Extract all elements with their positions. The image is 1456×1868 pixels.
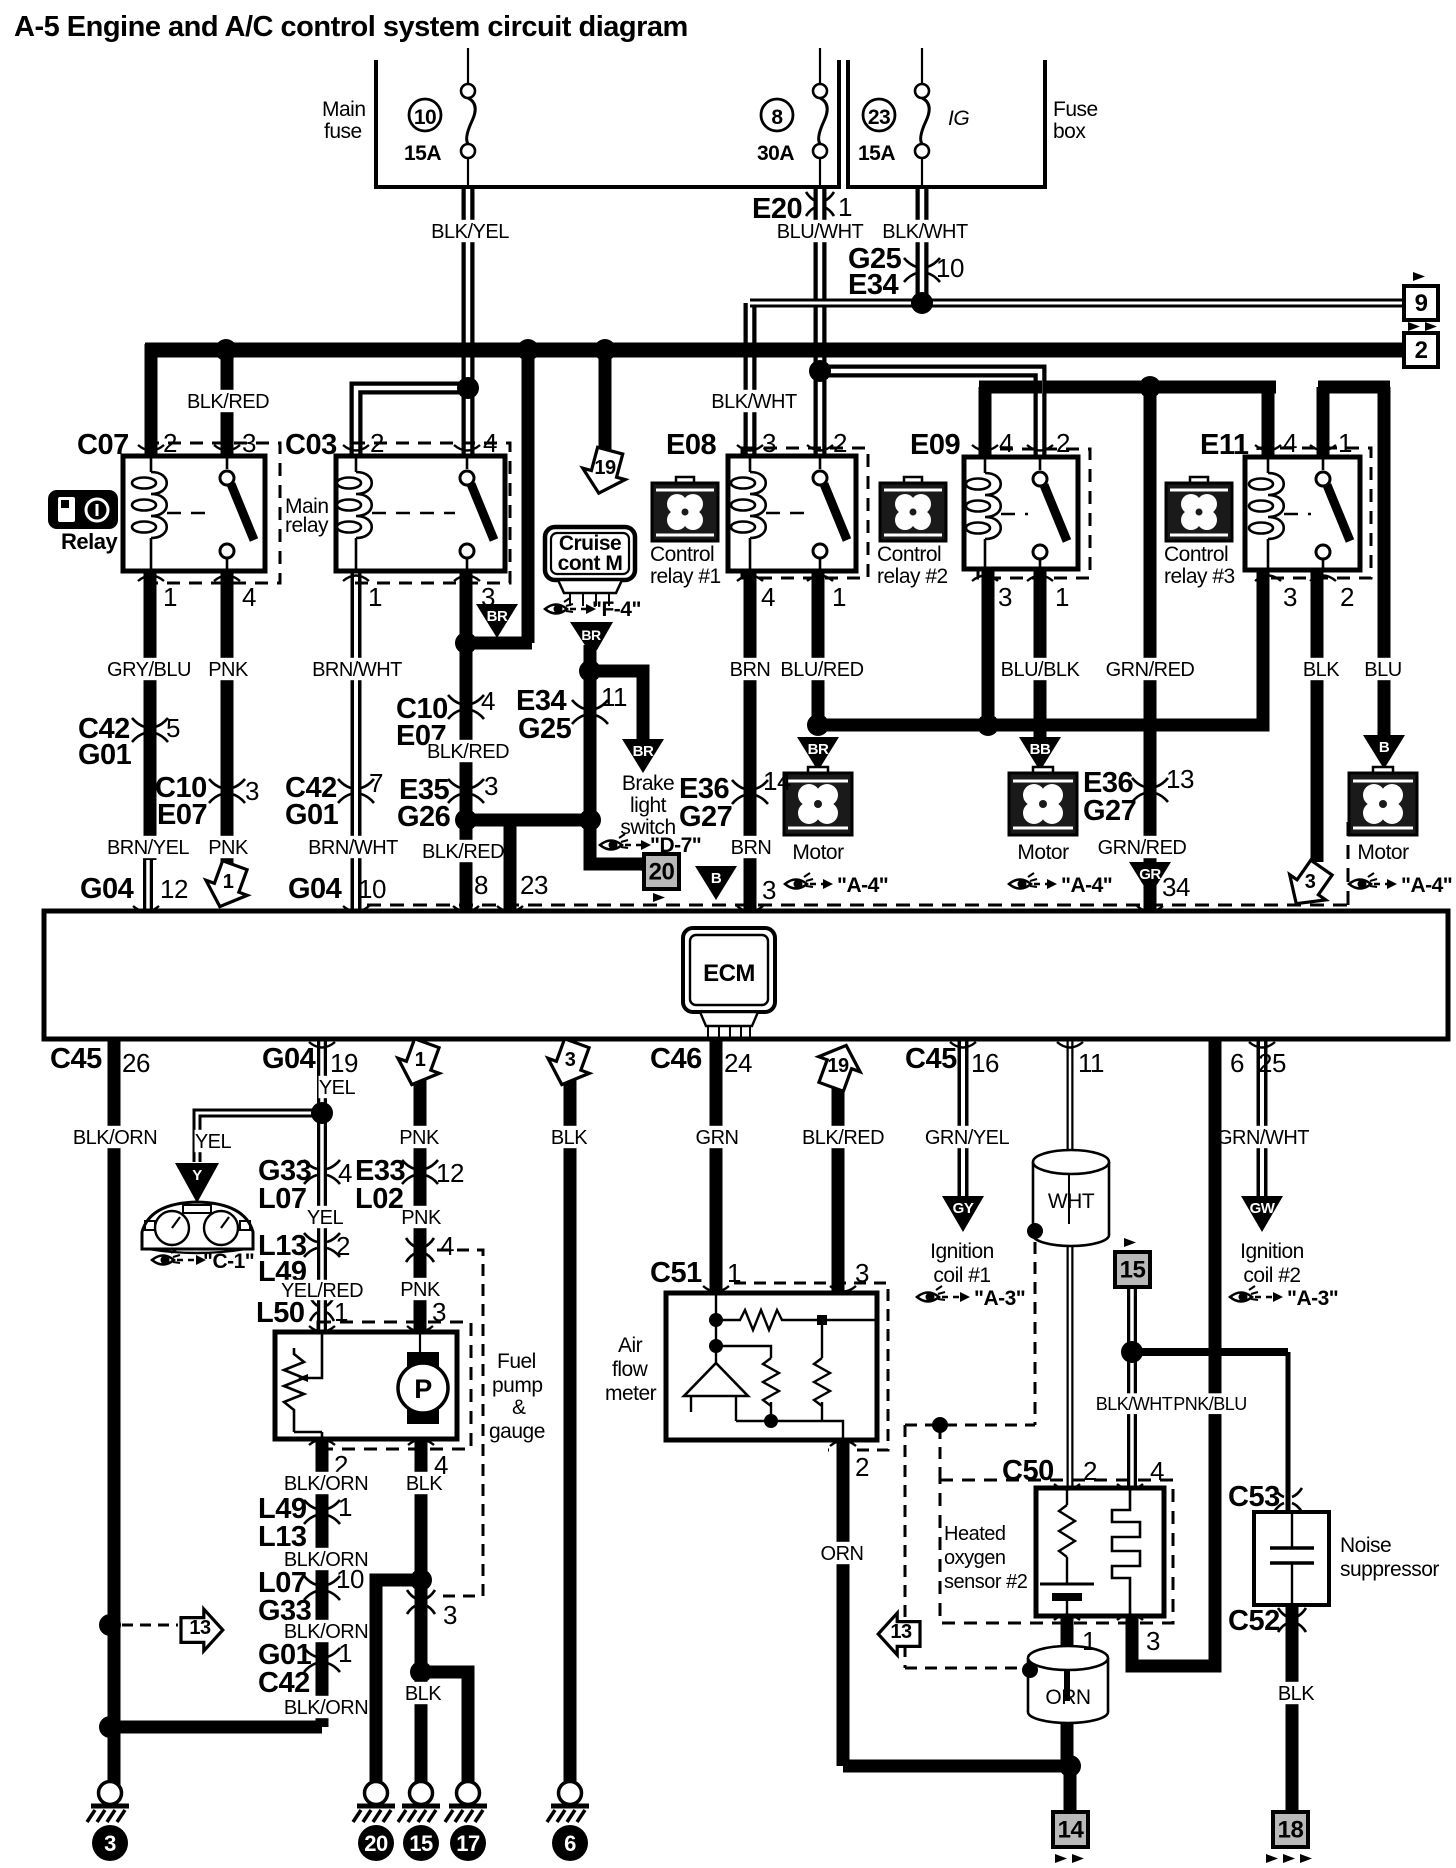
svg-text:BLU/RED: BLU/RED	[780, 659, 863, 681]
svg-text:C45: C45	[50, 1043, 102, 1075]
svg-text:18: 18	[1278, 1817, 1304, 1844]
svg-text:1: 1	[415, 1049, 426, 1071]
svg-text:2: 2	[1415, 337, 1428, 364]
svg-text:Heated: Heated	[944, 1523, 1006, 1545]
svg-text:3: 3	[245, 776, 259, 806]
svg-text:GRN/RED: GRN/RED	[1106, 659, 1195, 681]
svg-text:ECM: ECM	[703, 960, 755, 987]
svg-text:C07: C07	[77, 429, 129, 461]
svg-text:flow: flow	[612, 1358, 649, 1381]
svg-text:BRN: BRN	[730, 659, 771, 681]
svg-text:Relay: Relay	[61, 529, 118, 554]
svg-text:30A: 30A	[757, 142, 794, 165]
svg-text:"A-4": "A-4"	[1061, 874, 1112, 897]
svg-text:C45: C45	[905, 1043, 957, 1075]
svg-text:GY: GY	[953, 1200, 974, 1217]
svg-text:10: 10	[358, 874, 386, 904]
svg-text:BLU/WHT: BLU/WHT	[777, 221, 864, 243]
svg-text:1: 1	[832, 582, 846, 612]
svg-text:1: 1	[1338, 428, 1352, 458]
svg-text:BLK/RED: BLK/RED	[802, 1127, 884, 1149]
svg-text:GR: GR	[1139, 866, 1161, 883]
svg-text:B: B	[711, 870, 722, 887]
svg-text:23: 23	[868, 106, 890, 129]
svg-text:BLK: BLK	[551, 1127, 588, 1149]
svg-text:20: 20	[649, 859, 675, 886]
svg-text:6: 6	[564, 1831, 576, 1856]
svg-text:G04: G04	[288, 873, 342, 905]
svg-text:Noise: Noise	[1340, 1534, 1391, 1557]
svg-text:BRN/WHT: BRN/WHT	[308, 837, 398, 859]
svg-text:G27: G27	[679, 801, 732, 833]
svg-text:BB: BB	[1030, 741, 1051, 758]
svg-text:1: 1	[223, 871, 234, 893]
svg-text:3: 3	[998, 582, 1012, 612]
svg-text:3: 3	[443, 1600, 457, 1630]
svg-text:"D-7": "D-7"	[650, 834, 701, 857]
svg-text:15: 15	[1120, 1257, 1146, 1284]
svg-text:19: 19	[330, 1048, 358, 1078]
svg-text:relay: relay	[285, 514, 329, 537]
svg-text:16: 16	[971, 1048, 999, 1078]
svg-text:G25: G25	[518, 713, 572, 745]
svg-text:BRN: BRN	[731, 837, 772, 859]
svg-text:C42: C42	[258, 1667, 310, 1699]
svg-text:P: P	[414, 1374, 432, 1404]
svg-text:14: 14	[763, 766, 791, 796]
svg-text:BLK: BLK	[405, 1683, 442, 1705]
svg-text:1: 1	[338, 1492, 352, 1522]
svg-text:BRN/WHT: BRN/WHT	[312, 659, 402, 681]
svg-text:10: 10	[336, 1564, 364, 1594]
svg-text:1: 1	[334, 1297, 348, 1327]
svg-text:3: 3	[762, 875, 776, 905]
svg-text:20: 20	[364, 1831, 388, 1856]
svg-text:BR: BR	[633, 743, 654, 760]
svg-text:GRN/YEL: GRN/YEL	[925, 1127, 1010, 1149]
svg-text:BRN/YEL: BRN/YEL	[107, 837, 189, 859]
svg-text:GW: GW	[1250, 1200, 1276, 1217]
svg-text:4: 4	[999, 428, 1013, 458]
svg-text:3: 3	[565, 1049, 576, 1071]
svg-text:G27: G27	[1083, 795, 1136, 827]
svg-text:23: 23	[520, 870, 548, 900]
svg-text:Control: Control	[650, 543, 714, 566]
svg-text:sensor #2: sensor #2	[944, 1571, 1028, 1593]
svg-text:C53: C53	[1228, 1481, 1280, 1513]
svg-text:GRN: GRN	[696, 1127, 739, 1149]
svg-text:light: light	[630, 794, 667, 817]
svg-text:L02: L02	[355, 1183, 403, 1215]
svg-text:BLU: BLU	[1364, 659, 1401, 681]
svg-text:1: 1	[727, 1258, 741, 1288]
svg-text:BLK/ORN: BLK/ORN	[73, 1127, 157, 1149]
svg-text:7: 7	[369, 768, 383, 798]
svg-text:IG: IG	[948, 107, 969, 130]
svg-text:"A-4": "A-4"	[1401, 874, 1452, 897]
svg-text:PNK: PNK	[208, 659, 249, 681]
svg-text:ORN: ORN	[1045, 1686, 1090, 1709]
svg-text:BR: BR	[487, 608, 508, 625]
svg-text:1: 1	[1082, 1626, 1096, 1656]
svg-text:YEL: YEL	[307, 1207, 344, 1229]
svg-text:14: 14	[1058, 1817, 1085, 1844]
svg-text:meter: meter	[605, 1382, 657, 1405]
svg-text:PNK: PNK	[399, 1127, 440, 1149]
svg-text:1: 1	[1055, 582, 1069, 612]
svg-text:2: 2	[336, 1231, 350, 1261]
svg-text:17: 17	[456, 1831, 480, 1856]
svg-text:C52: C52	[1228, 1605, 1280, 1637]
svg-text:Control: Control	[877, 543, 941, 566]
svg-text:"F-4": "F-4"	[592, 598, 641, 621]
svg-text:19: 19	[594, 457, 616, 479]
svg-text:G01: G01	[78, 739, 132, 771]
svg-text:relay #1: relay #1	[650, 565, 721, 588]
svg-text:4: 4	[242, 582, 256, 612]
svg-text:BLK: BLK	[1303, 659, 1340, 681]
svg-text:"C-1": "C-1"	[203, 1250, 254, 1273]
svg-text:34: 34	[1162, 872, 1190, 902]
svg-text:BLK/RED: BLK/RED	[422, 841, 504, 863]
svg-text:Fuel: Fuel	[497, 1350, 536, 1373]
svg-text:3: 3	[855, 1258, 869, 1288]
svg-text:box: box	[1053, 120, 1086, 143]
svg-text:C51: C51	[650, 1257, 702, 1289]
svg-text:PNK/BLU: PNK/BLU	[1173, 1394, 1247, 1414]
svg-text:1: 1	[838, 192, 852, 222]
svg-text:coil #2: coil #2	[1243, 1264, 1300, 1287]
svg-text:3: 3	[432, 1297, 446, 1327]
svg-text:13: 13	[189, 1617, 211, 1639]
svg-text:Fuse: Fuse	[1053, 98, 1098, 121]
svg-text:BR: BR	[581, 627, 601, 643]
svg-text:8: 8	[771, 106, 783, 129]
svg-text:YEL: YEL	[319, 1077, 356, 1099]
svg-text:G26: G26	[397, 801, 451, 833]
svg-text:&: &	[512, 1396, 526, 1419]
svg-text:26: 26	[122, 1048, 150, 1078]
svg-text:Brake: Brake	[622, 772, 674, 795]
svg-text:gauge: gauge	[489, 1420, 545, 1443]
svg-text:"A-3": "A-3"	[974, 1287, 1025, 1310]
svg-text:15A: 15A	[858, 142, 895, 165]
svg-text:8: 8	[474, 870, 488, 900]
svg-text:2: 2	[855, 1452, 869, 1482]
svg-text:G04: G04	[80, 873, 134, 905]
svg-text:3: 3	[1305, 871, 1316, 893]
svg-text:4: 4	[1150, 1456, 1164, 1486]
svg-text:WHT: WHT	[1048, 1190, 1095, 1213]
svg-text:Motor: Motor	[1357, 841, 1409, 864]
svg-text:3: 3	[1283, 582, 1297, 612]
svg-text:15: 15	[409, 1831, 433, 1856]
svg-text:Air: Air	[618, 1334, 643, 1357]
svg-text:2: 2	[370, 428, 384, 458]
svg-text:9: 9	[1415, 290, 1428, 317]
svg-text:C46: C46	[650, 1043, 702, 1075]
svg-text:5: 5	[166, 713, 180, 743]
svg-text:3: 3	[104, 1831, 116, 1856]
svg-text:4: 4	[440, 1231, 454, 1261]
svg-text:suppressor: suppressor	[1340, 1558, 1439, 1581]
svg-text:3: 3	[1146, 1626, 1160, 1656]
svg-text:relay #2: relay #2	[877, 565, 948, 588]
svg-text:4: 4	[481, 686, 495, 716]
svg-text:BLK/YEL: BLK/YEL	[431, 221, 509, 243]
svg-text:L07: L07	[258, 1183, 306, 1215]
svg-text:1: 1	[163, 582, 177, 612]
svg-text:2: 2	[163, 428, 177, 458]
svg-text:E08: E08	[666, 429, 716, 461]
svg-text:Main: Main	[322, 98, 366, 121]
svg-text:BLK/ORN: BLK/ORN	[284, 1473, 368, 1495]
svg-text:cont M: cont M	[558, 552, 623, 575]
svg-text:11: 11	[1078, 1048, 1104, 1078]
svg-text:2: 2	[1340, 582, 1354, 612]
svg-text:Motor: Motor	[1017, 841, 1069, 864]
svg-text:GRN/RED: GRN/RED	[1098, 837, 1187, 859]
svg-text:GRY/BLU: GRY/BLU	[107, 659, 191, 681]
svg-text:C50: C50	[1002, 1455, 1054, 1487]
svg-text:13: 13	[890, 1621, 912, 1643]
svg-text:12: 12	[436, 1158, 464, 1188]
svg-text:10: 10	[414, 106, 436, 129]
svg-text:12: 12	[160, 874, 188, 904]
svg-text:PNK: PNK	[401, 1207, 442, 1229]
svg-text:E07: E07	[157, 799, 207, 831]
svg-text:ORN: ORN	[821, 1543, 864, 1565]
svg-text:Control: Control	[1164, 543, 1228, 566]
svg-text:BLK: BLK	[1278, 1683, 1315, 1705]
svg-text:G01: G01	[285, 799, 339, 831]
svg-text:4: 4	[483, 428, 497, 458]
svg-text:E34: E34	[848, 269, 898, 301]
svg-text:BLK/WHT: BLK/WHT	[711, 391, 797, 413]
svg-text:3: 3	[242, 428, 256, 458]
svg-text:3: 3	[484, 771, 498, 801]
svg-text:4: 4	[1283, 428, 1297, 458]
svg-text:2: 2	[1083, 1456, 1097, 1486]
svg-text:BLK/ORN: BLK/ORN	[284, 1697, 368, 1719]
svg-text:GRN/WHT: GRN/WHT	[1217, 1127, 1309, 1149]
svg-text:BLK/RED: BLK/RED	[187, 391, 269, 413]
svg-text:2: 2	[1056, 428, 1070, 458]
svg-text:11: 11	[601, 682, 627, 712]
svg-text:A-5 Engine and A/C control sys: A-5 Engine and A/C control system circui…	[14, 11, 688, 43]
svg-text:6: 6	[1230, 1048, 1244, 1078]
svg-text:15A: 15A	[404, 142, 441, 165]
svg-text:1: 1	[338, 1638, 352, 1668]
svg-text:BLU/BLK: BLU/BLK	[1001, 659, 1081, 681]
svg-text:"A-3": "A-3"	[1287, 1287, 1338, 1310]
svg-text:E11: E11	[1200, 429, 1249, 461]
svg-text:YEL: YEL	[195, 1131, 232, 1153]
svg-text:3: 3	[762, 428, 776, 458]
svg-text:25: 25	[1258, 1048, 1286, 1078]
svg-text:BLK/WHT: BLK/WHT	[1096, 1394, 1173, 1414]
svg-text:Ignition: Ignition	[1240, 1240, 1304, 1263]
svg-text:PNK: PNK	[208, 837, 249, 859]
svg-text:Motor: Motor	[792, 841, 844, 864]
svg-text:oxygen: oxygen	[944, 1547, 1006, 1569]
svg-text:13: 13	[1166, 764, 1194, 794]
svg-text:B: B	[1379, 739, 1390, 756]
svg-text:fuse: fuse	[324, 120, 362, 143]
svg-text:"A-4": "A-4"	[837, 874, 888, 897]
svg-text:BLK/WHT: BLK/WHT	[882, 221, 968, 243]
svg-text:coil #1: coil #1	[933, 1264, 990, 1287]
svg-text:2: 2	[833, 428, 847, 458]
svg-text:19: 19	[827, 1055, 849, 1077]
svg-text:1: 1	[368, 582, 382, 612]
svg-text:BLK: BLK	[406, 1473, 443, 1495]
svg-text:Y: Y	[192, 1167, 202, 1184]
svg-text:E09: E09	[910, 429, 960, 461]
svg-text:4: 4	[338, 1158, 352, 1188]
svg-text:pump: pump	[492, 1374, 543, 1397]
svg-text:BLK/RED: BLK/RED	[427, 741, 509, 763]
svg-text:4: 4	[761, 582, 775, 612]
svg-text:24: 24	[724, 1048, 752, 1078]
svg-text:relay #3: relay #3	[1164, 565, 1235, 588]
svg-text:L50: L50	[256, 1297, 304, 1329]
svg-text:C03: C03	[285, 429, 337, 461]
svg-text:10: 10	[936, 253, 964, 283]
svg-text:G04: G04	[262, 1043, 316, 1075]
svg-text:BR: BR	[808, 741, 829, 758]
svg-text:Ignition: Ignition	[930, 1240, 994, 1263]
